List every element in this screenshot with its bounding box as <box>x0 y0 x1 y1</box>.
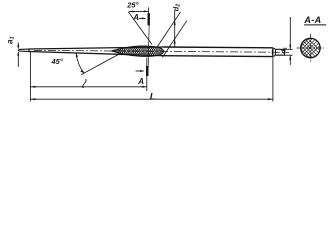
svg-text:d2: d2 <box>171 4 181 12</box>
svg-text:L: L <box>150 91 156 102</box>
svg-text:45°: 45° <box>51 57 63 66</box>
svg-text:d1: d1 <box>280 47 287 54</box>
svg-text:A: A <box>132 13 139 22</box>
svg-text:25°: 25° <box>126 1 138 10</box>
svg-text:A: A <box>137 77 144 86</box>
svg-text:A-A: A-A <box>303 15 321 25</box>
svg-text:a1: a1 <box>5 37 15 44</box>
